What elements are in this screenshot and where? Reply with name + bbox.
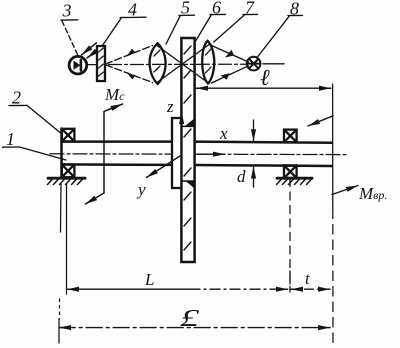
disk 6 [181,38,194,262]
label 8 leader [258,15,303,57]
extension shaft left end [60,184,63,232]
axis x arrow [197,153,225,155]
moment Mvr arrow lower [332,186,358,195]
svg-text:4: 4 [128,0,137,20]
ray slit to lens5 lower [106,65,153,83]
svg-text:£: £ [180,306,201,332]
lens 7 [202,41,214,84]
bearing left bottom [62,165,75,178]
ray lens7 to detector lower [212,66,249,83]
svg-text:Мвр.: Мвр. [358,184,387,203]
disk hatching [184,46,191,250]
label 2 [9,105,60,132]
bearing right top [284,130,297,143]
label 1 [3,147,67,160]
dimension t [290,271,330,289]
ray lens7 to detector upper [212,46,249,63]
svg-text:8: 8 [290,0,299,19]
lamp 3 [69,56,87,74]
svg-text:d: d [237,167,246,186]
svg-text:ℓ: ℓ [260,65,270,90]
dimension script-L (total length) [59,327,330,329]
svg-text:y: y [136,180,146,199]
lamp incoming ray arrows [82,43,100,58]
svg-text:Мс: Мс [104,85,125,104]
ray lens5 to lens7 crossing at disk (upper-left to lower-right) [157,46,209,84]
moment Mc arrow [86,104,123,204]
extension left bearing center [66,184,68,294]
slit 4 [97,46,105,81]
bearing right bottom [284,165,297,178]
hub-disk fillet top [181,119,194,127]
extension right bearing center [289,179,291,293]
bearing left top [62,129,75,142]
label 3 leader [61,20,78,55]
lens 5 [150,43,166,84]
lens 7 hatch [206,49,212,73]
dimension l (top) [196,87,331,89]
optical axis [87,63,247,65]
extension line shaft right end [332,84,334,345]
label 4 leader [102,17,146,46]
hub [172,118,181,188]
dimension d arrows [253,120,255,187]
moment Mvr arrow upper [308,116,333,126]
lens 5 hatch [154,50,160,72]
svg-text:t: t [305,269,311,288]
ray slit to lens5 upper [106,46,153,65]
label 5 leader [166,15,195,44]
shaft [62,129,333,178]
svg-text:z: z [166,97,174,116]
svg-text:5: 5 [181,0,190,18]
hub-disk fillet bottom [181,181,194,188]
ground right [277,178,313,184]
svg-text:x: x [219,124,228,143]
svg-text:1: 1 [6,129,15,149]
shaft centerline [50,153,348,156]
label 6 leader [196,14,226,41]
axis y arrow [147,156,181,178]
ray lens5 to lens7 (lower-left to upper-right) [157,45,209,83]
axis z arrow [181,112,183,127]
ground left [48,178,86,184]
svg-text:L: L [144,270,154,289]
svg-text:2: 2 [12,88,21,108]
slit hatching [99,48,104,76]
optical axis right of detector [263,63,284,65]
svg-text:6: 6 [212,0,221,18]
svg-text:3: 3 [62,1,72,21]
svg-text:7: 7 [245,0,255,18]
detector 8 [247,57,261,71]
dimension L [67,288,288,290]
label 7 leader [214,14,258,42]
